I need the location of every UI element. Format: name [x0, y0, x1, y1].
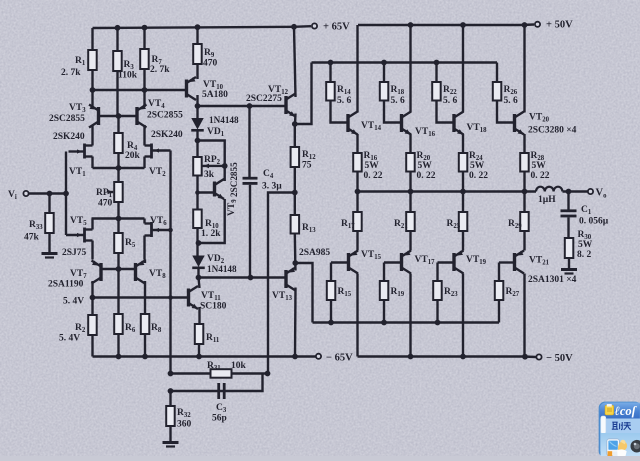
svg-text:5. 4V: 5. 4V — [59, 334, 80, 344]
wire R1 bottom — [91, 70, 93, 105]
wire R22 top — [435, 63, 437, 83]
resistor R17 — [353, 212, 362, 231]
svg-text:− 65V: − 65V — [326, 353, 353, 364]
diode VD2 — [192, 256, 205, 268]
wire VT4 collector — [143, 125, 145, 144]
capacitor C3 — [217, 383, 220, 399]
svg-text:5. 4V: 5. 4V — [63, 297, 84, 307]
ground R30 — [561, 268, 577, 271]
wire R6 bottom — [117, 334, 119, 357]
wire RP1 bottom — [117, 202, 119, 219]
wire R24 bottom — [462, 172, 464, 192]
wire R26 to base — [497, 101, 515, 123]
node Vi-gate — [63, 191, 69, 197]
potentiometer RP2 — [193, 157, 202, 176]
wire R2 top — [91, 298, 93, 316]
wire R22 to base — [437, 101, 455, 123]
wire VT13 emitter down — [294, 288, 297, 357]
resistor R27 — [495, 281, 504, 300]
svg-text:2SA985: 2SA985 — [299, 248, 330, 258]
inductor L1 — [536, 187, 562, 192]
svg-text:2SK240: 2SK240 — [53, 132, 85, 142]
wire R33 top — [48, 194, 50, 214]
svg-text:1N4148: 1N4148 — [207, 264, 237, 274]
wire VD1 top — [196, 106, 198, 118]
svg-text:− 50V: − 50V — [546, 353, 573, 364]
wire R25 to emitter — [462, 231, 464, 251]
node VT12 emitter — [292, 121, 298, 127]
node C4 bottom — [248, 275, 254, 281]
node wiper — [222, 163, 228, 169]
node rail-R9 — [195, 24, 201, 30]
transistor VT7 — [99, 263, 102, 281]
node bbus R15 — [328, 320, 334, 326]
node rail VT20 — [522, 22, 528, 28]
resistor R11 — [195, 324, 204, 344]
ground R33 — [42, 252, 58, 255]
wire R19 top — [383, 263, 385, 282]
terminal -65V — [316, 354, 321, 359]
svg-text:+ 65V: + 65V — [323, 22, 350, 33]
diode VD1 — [191, 118, 204, 130]
resistor R10 — [193, 210, 202, 229]
svg-text:1. 2k: 1. 2k — [201, 229, 221, 239]
svg-text:5. 6: 5. 6 — [391, 96, 406, 106]
resistor R15 — [327, 281, 336, 300]
node VT7c-R2 — [90, 295, 96, 301]
transistor VT3 — [97, 107, 100, 125]
svg-text:+ 50V: + 50V — [546, 20, 573, 31]
resistor R20 — [406, 153, 415, 172]
wire VT3 collector — [91, 125, 93, 144]
wire VT14 collector — [356, 25, 358, 113]
wire VD1 bottom — [196, 131, 198, 141]
svg-text:2SC2855: 2SC2855 — [147, 111, 183, 121]
node bus R22 — [434, 60, 440, 66]
svg-text:56p: 56p — [212, 414, 227, 424]
wire R13 bottom — [294, 234, 297, 264]
node feedback tap — [292, 190, 298, 196]
wire VT17 base — [384, 261, 402, 263]
wire R29 top — [523, 192, 525, 213]
terminal -50V — [536, 354, 541, 359]
wire R10 bottom — [196, 228, 198, 256]
wire VT7 collector — [91, 281, 93, 298]
resistor R24 — [459, 153, 468, 172]
transistor VT13 — [284, 270, 287, 288]
wire R12 top — [294, 124, 296, 147]
node rail-R11 — [196, 354, 202, 360]
svg-text:5. 6: 5. 6 — [337, 96, 352, 106]
wire VT12 emitter — [294, 114, 297, 125]
wire VT8 base — [119, 268, 136, 270]
wire R9 top — [196, 27, 198, 44]
node nrail VT19 — [460, 354, 466, 360]
wire R19 bottom — [383, 300, 385, 323]
wire R18 to base — [384, 101, 402, 123]
node rail-R6 — [116, 354, 122, 360]
wire drains line — [92, 217, 145, 219]
wire R23 bottom — [436, 300, 438, 323]
wire R13 top — [294, 193, 296, 216]
wire RP2 bottom — [196, 176, 198, 210]
wire VT3 base to VT4 — [99, 115, 138, 117]
node out — [408, 189, 414, 195]
wire feedback column — [169, 151, 171, 374]
svg-text:5W: 5W — [365, 161, 380, 171]
wire VT13 collector up — [294, 263, 297, 271]
resistor R25 — [459, 212, 468, 231]
resistor R8 — [141, 314, 150, 334]
svg-text:8. 2: 8. 2 — [577, 250, 592, 260]
transistor VT6 — [150, 222, 153, 237]
transistor VT9 — [213, 182, 216, 197]
capacitor C4 — [243, 177, 258, 180]
wire VT16 collector — [409, 25, 411, 113]
node bases-R4 — [116, 113, 122, 119]
transistor VT11 — [187, 289, 190, 307]
wire RP1 top — [117, 168, 119, 182]
node fb column — [168, 295, 173, 300]
node rail-R8 — [142, 354, 148, 360]
svg-text:SC180: SC180 — [200, 302, 227, 312]
node bbus R23 — [435, 320, 441, 326]
svg-text:1µH: 1µH — [538, 195, 556, 205]
wire R14 to base — [331, 101, 349, 123]
wire R31 line — [171, 372, 268, 374]
transistor VT4 — [135, 107, 138, 125]
wire RP2 wiper — [202, 165, 225, 167]
wire R32 top — [169, 391, 171, 406]
node VT12 base line — [195, 103, 201, 109]
node VT9 base — [195, 190, 200, 195]
terminal Vi input — [23, 191, 28, 196]
svg-text:5W: 5W — [470, 161, 485, 171]
wire R21 to emitter — [409, 231, 411, 251]
wire R33 bottom — [48, 233, 50, 253]
svg-text:3. 3µ: 3. 3µ — [262, 182, 282, 192]
svg-text:2SA1190: 2SA1190 — [48, 280, 84, 290]
transistor VT14 — [346, 114, 349, 132]
node VT13 collector — [292, 260, 298, 266]
node bus R14 — [328, 60, 334, 66]
resistor R16 — [353, 153, 362, 172]
transistor VT20 — [513, 114, 516, 132]
transistor VT21 — [513, 253, 516, 271]
wire bottom base bus — [313, 321, 500, 323]
wire 5.4V line — [93, 296, 189, 298]
wire R28 bottom — [523, 172, 525, 192]
node fb gate VT6 — [168, 228, 173, 233]
terminal Vo — [588, 189, 593, 194]
wire R30 bottom — [568, 258, 570, 269]
resistor R33 — [45, 213, 54, 233]
wire VT3 emitter column — [91, 105, 93, 108]
wire VT15 base — [331, 261, 349, 263]
wire R11 bottom — [198, 344, 200, 357]
transistor VT15 — [347, 253, 350, 271]
wire VT18 collector — [462, 25, 464, 113]
node rail-VT12c — [291, 24, 297, 30]
svg-text:10k: 10k — [231, 361, 247, 371]
ground R32 — [163, 441, 179, 444]
node bbus R19 — [381, 320, 387, 326]
wire -65V rail — [93, 355, 316, 357]
wire R12 bottom — [294, 167, 296, 193]
svg-text:2SC3280 ×4: 2SC3280 ×4 — [528, 126, 577, 136]
wire C3 line — [171, 374, 263, 392]
node VT10 base line left — [90, 87, 96, 93]
svg-text:5. 6: 5. 6 — [504, 96, 519, 106]
node C4 top — [247, 103, 253, 109]
wire R29 to emitter — [523, 231, 525, 251]
resistor R5 — [114, 233, 123, 253]
resistor R18 — [380, 82, 389, 101]
node nrail VT17 — [408, 354, 414, 360]
transistor VT5 — [83, 228, 86, 243]
wire -50V rail — [358, 355, 524, 357]
resistor R32 — [166, 406, 175, 426]
svg-text:5W: 5W — [578, 240, 593, 250]
wire VT8 collector — [144, 281, 146, 314]
wire R9 bottom — [196, 64, 198, 79]
wire R17 to emitter — [356, 231, 358, 251]
wire R20 bottom — [409, 172, 411, 192]
resistor R9 — [193, 44, 202, 64]
node rail-VT13 — [292, 354, 298, 360]
wire R2 bottom — [91, 335, 93, 357]
wire VT4 emitter column — [143, 105, 145, 108]
resistor R3 — [113, 51, 122, 71]
wire R5 bottom — [117, 253, 119, 314]
capacitor C1 — [561, 209, 577, 212]
wire VT21 collector — [523, 274, 525, 357]
transistor VT12 — [284, 96, 287, 114]
wire output rail — [355, 190, 536, 192]
wire R7 bottom — [143, 69, 145, 105]
node C1 tap — [566, 189, 572, 195]
svg-text:5W: 5W — [532, 161, 547, 171]
resistor R2 — [88, 315, 97, 335]
svg-text:3k: 3k — [204, 170, 215, 180]
wire VT20 collector — [523, 25, 525, 113]
wire R3 bottom — [116, 71, 118, 116]
svg-text:5. 6: 5. 6 — [443, 96, 458, 106]
node R31 right — [265, 371, 271, 377]
wire VT14 emitter — [356, 134, 358, 153]
transistor VT10 — [185, 80, 188, 98]
wire VT13 base line — [199, 276, 287, 278]
wire R4 top — [117, 116, 119, 133]
node out — [355, 189, 361, 195]
svg-text:0. 22: 0. 22 — [364, 171, 383, 181]
node rail-R7 — [142, 25, 148, 31]
node Vi-R33 — [47, 191, 53, 197]
node base-R7 — [142, 87, 148, 93]
wire VT9 base — [198, 191, 215, 193]
resistor R21 — [406, 212, 415, 231]
resistor R14 — [326, 82, 335, 101]
resistor R23 — [433, 281, 442, 300]
transistor VT19 — [452, 253, 455, 271]
wire VT16 emitter — [409, 134, 411, 153]
resistor R7 — [140, 49, 149, 69]
svg-text:47k: 47k — [24, 233, 40, 243]
wire +50V rail — [358, 24, 521, 26]
wire R4 bottom — [117, 153, 119, 168]
svg-text:360: 360 — [177, 420, 192, 430]
resistor R4 — [114, 133, 123, 153]
wire R3 top — [116, 28, 118, 51]
wire VT17 collector — [409, 274, 411, 357]
svg-text:1N4148: 1N4148 — [209, 115, 239, 125]
potentiometer RP1 — [114, 182, 123, 202]
wire VT11 emitter — [198, 307, 200, 324]
svg-text:2. 7k: 2. 7k — [150, 65, 170, 75]
wire R1 column — [91, 28, 93, 50]
wire C1 to R30 — [567, 217, 569, 238]
svg-text:0. 056µ: 0. 056µ — [579, 217, 609, 227]
svg-text:0. 22: 0. 22 — [469, 171, 488, 181]
wire R5 top — [117, 219, 119, 234]
wire C4 bottom — [249, 185, 251, 278]
wire R17 top — [356, 192, 358, 213]
wire L1 to Vo — [563, 190, 588, 192]
wire R21 top — [409, 192, 411, 213]
wire C4 top — [248, 106, 250, 177]
svg-text:0. 22: 0. 22 — [417, 171, 436, 181]
svg-text:5A180: 5A180 — [202, 90, 228, 100]
wire R27 top — [498, 263, 500, 282]
wire R25 top — [462, 192, 464, 213]
svg-text:470: 470 — [203, 59, 218, 69]
wire VT19 base — [438, 261, 455, 263]
resistor R19 — [380, 281, 389, 300]
node bus R18 — [381, 60, 387, 66]
wire VT10 base line — [93, 89, 187, 91]
wire VT18 emitter — [462, 134, 464, 153]
wire R23 top — [436, 263, 438, 282]
svg-text:2SJ75: 2SJ75 — [62, 248, 87, 258]
transistor VT1 — [83, 144, 86, 159]
transistor VT16 — [400, 114, 403, 132]
svg-text:2SC2275: 2SC2275 — [246, 94, 282, 104]
transistor VT18 — [452, 114, 455, 132]
svg-text:2SK240: 2SK240 — [151, 130, 183, 140]
node bias top — [195, 138, 201, 144]
wire VT13c to bottom bus — [295, 263, 312, 323]
wire VT9 emitter loop — [199, 199, 225, 243]
wire VT12 collector — [294, 27, 296, 97]
wire R7 top — [143, 28, 145, 49]
resistor R29 — [520, 212, 529, 231]
wire gate column up — [65, 152, 67, 194]
svg-text:2SA1301 ×4: 2SA1301 ×4 — [528, 275, 577, 285]
node R31 left — [168, 371, 174, 377]
svg-text:0. 22: 0. 22 — [531, 171, 550, 181]
wire C1 top — [567, 192, 569, 210]
node rail-R3 — [115, 25, 121, 31]
resistor R13 — [291, 215, 300, 234]
wire VT12 base line — [198, 105, 287, 107]
wire Vi — [29, 192, 66, 194]
resistor R12 — [291, 147, 300, 167]
svg-text:20k: 20k — [125, 151, 141, 161]
node rail VT18 — [460, 22, 466, 28]
wire R16 bottom — [356, 172, 358, 192]
terminal +65V — [312, 23, 317, 28]
wire top base bus — [312, 61, 498, 63]
wire R32 bottom — [169, 426, 171, 442]
resistor R31 — [211, 369, 232, 378]
wire VD2 bottom — [197, 268, 199, 278]
svg-text:5W: 5W — [418, 161, 433, 171]
resistor R1 — [88, 50, 97, 70]
transistor VT2 — [150, 144, 153, 159]
wire VT9 collector — [223, 166, 225, 181]
wire R15 bottom — [330, 300, 332, 323]
wire VT8 emitter up — [144, 260, 146, 264]
resistor R6 — [114, 314, 123, 334]
wire VT10 collector — [196, 95, 198, 106]
svg-text:ℓcoſ: ℓcoſ — [615, 404, 638, 418]
svg-text:470: 470 — [98, 199, 113, 209]
wire R8 bottom — [144, 334, 146, 357]
transistor VT8 — [134, 263, 137, 281]
wire +65V rail — [93, 27, 295, 28]
wire VT7 base — [101, 268, 119, 270]
wire R18 top — [383, 63, 385, 83]
wire VT15 collector — [356, 274, 358, 357]
node R5 top — [116, 216, 122, 222]
svg-text:2SC2855: 2SC2855 — [229, 162, 239, 197]
svg-text:110k: 110k — [118, 71, 138, 81]
node C3 left — [168, 388, 174, 394]
svg-text:2. 7k: 2. 7k — [61, 68, 81, 78]
wire source line — [93, 167, 145, 169]
terminal +50V — [535, 22, 540, 27]
node bases VT7 VT8 — [116, 266, 122, 272]
resistor R30 — [565, 238, 574, 258]
wire gate column down — [65, 194, 67, 236]
node VD2 top — [196, 240, 202, 246]
wire fb left — [268, 193, 295, 374]
wire VT20 emitter — [523, 134, 525, 153]
node RP1 top — [116, 165, 122, 171]
resistor R28 — [520, 153, 529, 172]
wire R15 top — [330, 263, 332, 282]
wire RP2 top — [196, 141, 198, 158]
node out — [460, 189, 466, 195]
node out — [522, 189, 528, 195]
wire VT12e to bus — [295, 63, 312, 125]
wire VT21 base — [499, 261, 515, 263]
transistor VT17 — [400, 253, 403, 271]
wire R26 top — [496, 63, 498, 83]
resistor R22 — [432, 82, 441, 101]
wire bias top right — [198, 141, 225, 166]
chat window — [600, 403, 640, 457]
node rail VT16 — [408, 22, 414, 28]
wire VT19 collector — [462, 274, 464, 357]
resistor R26 — [493, 82, 502, 101]
svg-text:2SC2855: 2SC2855 — [49, 114, 85, 124]
svg-text:75: 75 — [302, 161, 312, 171]
wire R27 bottom — [498, 300, 500, 323]
node VT13 base line left — [196, 275, 202, 281]
node nrail VT21 — [522, 354, 528, 360]
wire VT11 collector — [199, 278, 200, 289]
